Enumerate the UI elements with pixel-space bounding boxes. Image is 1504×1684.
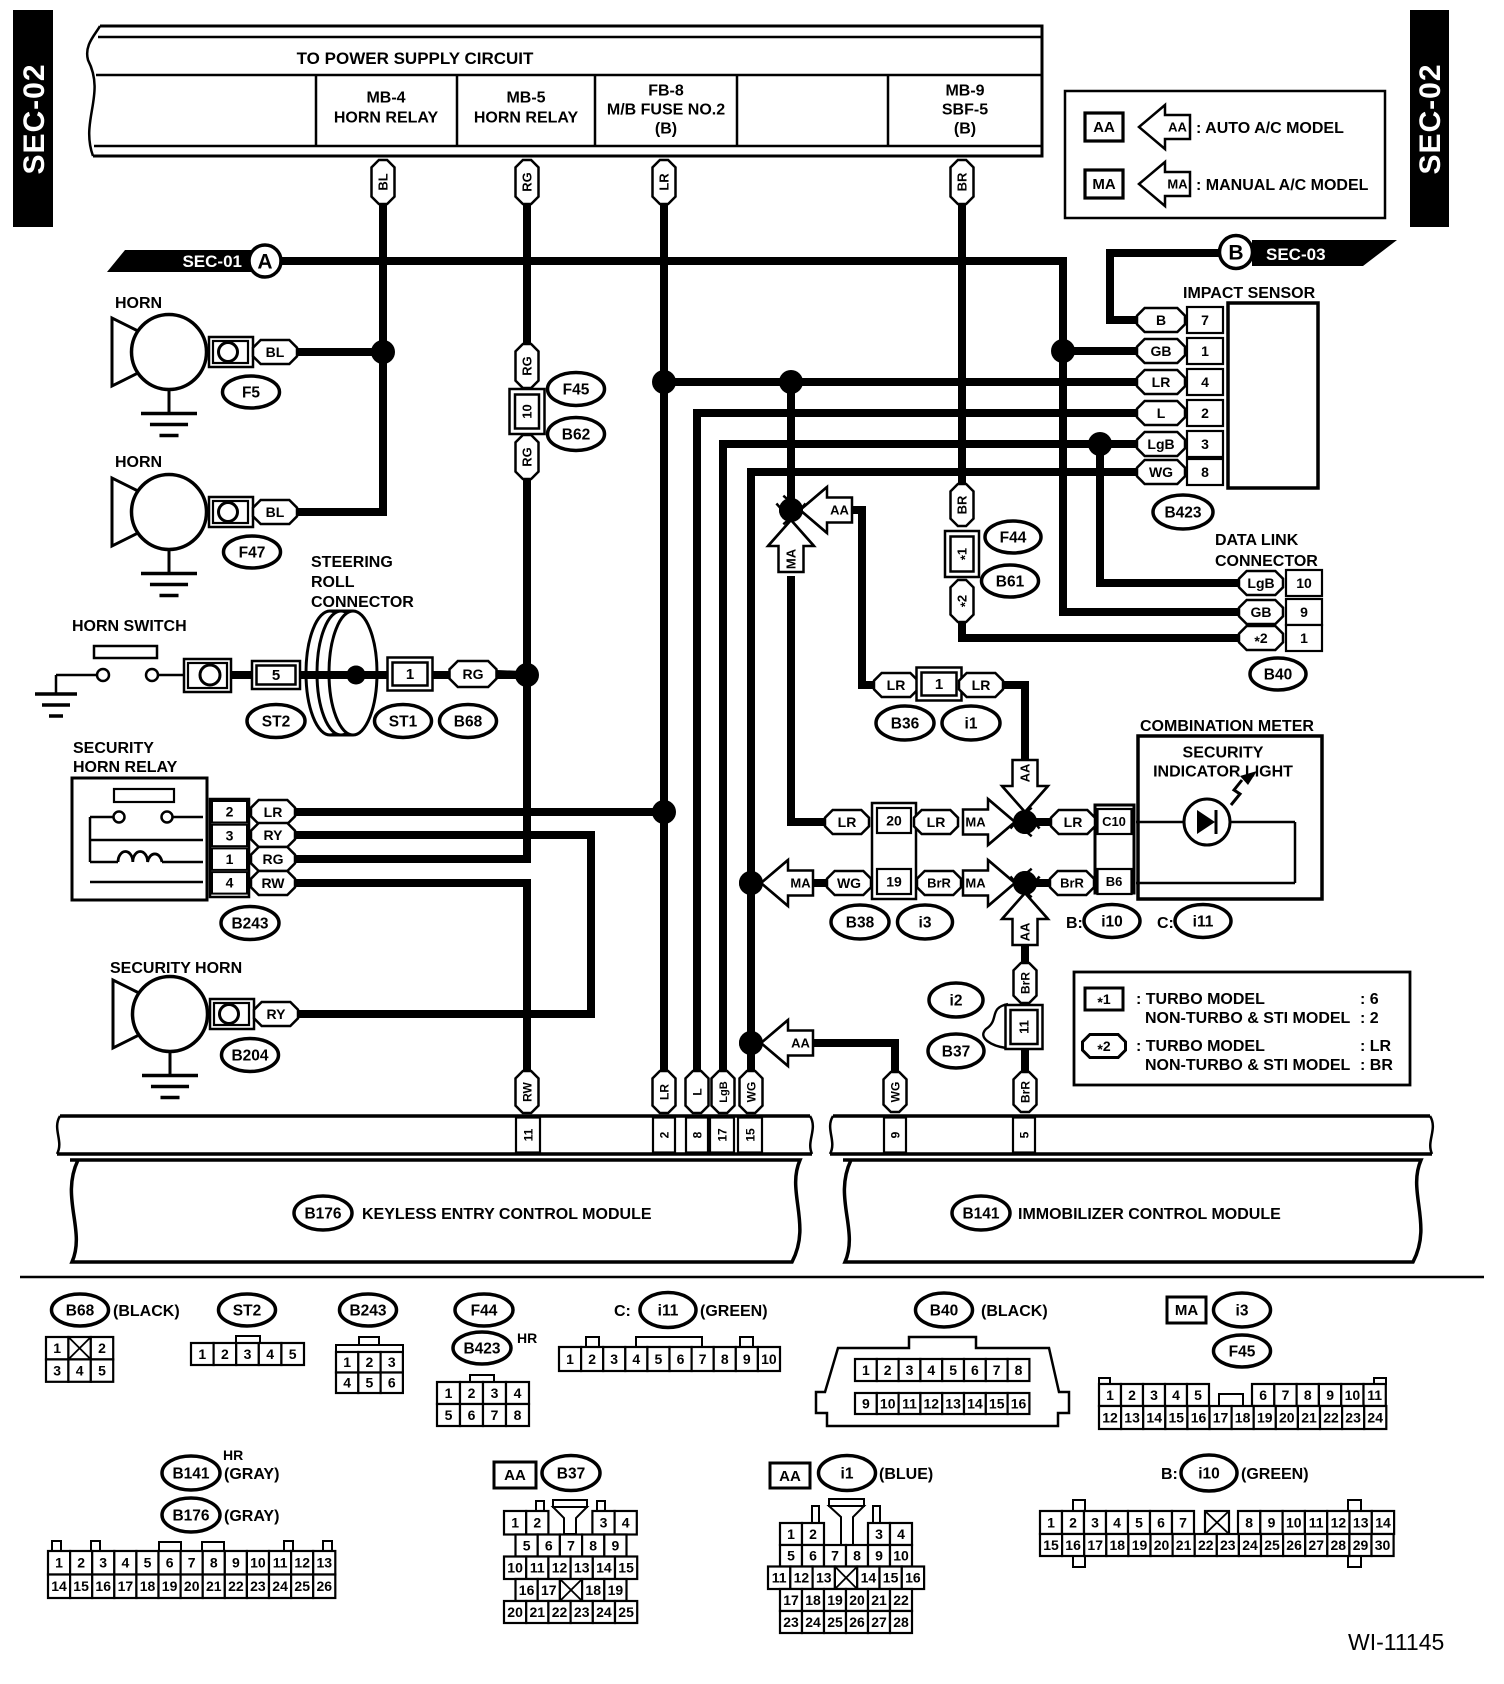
- connector label B37: [928, 1034, 984, 1068]
- svg-text:B37: B37: [942, 1043, 970, 1060]
- pin LR at C10: [1051, 810, 1095, 834]
- svg-text:9: 9: [1268, 1514, 1276, 1530]
- svg-text:2: 2: [809, 1526, 817, 1542]
- view B243 label: [340, 1294, 397, 1326]
- arrow AA down to C10 dot: [1002, 760, 1048, 812]
- svg-text:B141: B141: [962, 1205, 999, 1222]
- svg-text:MA: MA: [965, 876, 986, 891]
- connector label F45: [548, 373, 605, 406]
- svg-text:23: 23: [783, 1614, 799, 1630]
- view B68 label: [52, 1294, 109, 1326]
- connector label i2: [929, 983, 983, 1017]
- connector 20-19 B38-i3: [872, 803, 916, 899]
- svg-text:CONNECTOR: CONNECTOR: [1215, 553, 1318, 570]
- svg-text:i3: i3: [1236, 1302, 1249, 1319]
- svg-text:14: 14: [1375, 1514, 1391, 1530]
- svg-text:B176: B176: [172, 1507, 209, 1524]
- svg-text:8: 8: [1245, 1514, 1253, 1530]
- svg-text:9: 9: [1326, 1387, 1334, 1403]
- svg-text:: TURBO MODEL: : TURBO MODEL: [1136, 991, 1265, 1008]
- svg-text:25: 25: [827, 1614, 843, 1630]
- svg-text:18: 18: [1235, 1409, 1251, 1425]
- svg-text:26: 26: [1286, 1537, 1302, 1553]
- wire LR impact row: [664, 378, 1140, 386]
- wire C10 row: [1025, 818, 1053, 826]
- keyless module pin strip: [60, 1114, 810, 1118]
- svg-text:19: 19: [608, 1582, 624, 1598]
- wire GB impact row: [1063, 347, 1140, 355]
- svg-text:15: 15: [1169, 1409, 1185, 1425]
- svg-text:4: 4: [226, 875, 234, 891]
- svg-text:B6: B6: [1106, 874, 1123, 889]
- svg-text:11: 11: [1309, 1514, 1324, 1530]
- svg-text:MA: MA: [790, 876, 811, 891]
- svg-text:2: 2: [1201, 405, 1209, 421]
- svg-text:15: 15: [989, 1395, 1005, 1411]
- svg-text:23: 23: [574, 1604, 590, 1620]
- svg-text:(B): (B): [954, 121, 976, 138]
- svg-text:1: 1: [406, 666, 414, 683]
- svg-text:WI-11145: WI-11145: [1348, 1629, 1444, 1655]
- svg-text:1: 1: [445, 1385, 453, 1401]
- svg-text:B61: B61: [996, 573, 1025, 590]
- arrow AA at immobilizer WG: [761, 1020, 813, 1066]
- svg-text:1: 1: [1106, 1387, 1114, 1403]
- horn F47: [112, 478, 138, 546]
- ground horn switch: [35, 692, 77, 696]
- svg-text:SEC-02: SEC-02: [1414, 63, 1447, 174]
- svg-text:: 6: : 6: [1360, 991, 1379, 1008]
- svg-text:SEC-02: SEC-02: [18, 63, 51, 174]
- svg-text:F44: F44: [1000, 529, 1027, 546]
- svg-text:18: 18: [585, 1582, 601, 1598]
- SEC-02 tab right: [1410, 10, 1449, 227]
- svg-text:NON-TURBO & STI MODEL: NON-TURBO & STI MODEL: [1145, 1057, 1351, 1074]
- wire horn F5 BL: [297, 348, 383, 356]
- svg-text:3: 3: [1091, 1514, 1099, 1530]
- roll connector dot: [347, 666, 366, 685]
- svg-text:B68: B68: [66, 1302, 95, 1319]
- svg-text:L: L: [690, 1088, 704, 1095]
- svg-text:15: 15: [883, 1570, 899, 1586]
- svg-text:22: 22: [228, 1578, 244, 1594]
- wire BrR to inline connector 11: [1021, 1000, 1029, 1010]
- pin LR from FB-8: [653, 160, 676, 204]
- connector label B36: [876, 706, 934, 740]
- svg-text:16: 16: [95, 1578, 111, 1594]
- svg-text:13: 13: [317, 1555, 333, 1571]
- keyless pin numbers: [516, 1118, 540, 1153]
- svg-text:8: 8: [721, 1351, 729, 1367]
- svg-text:SECURITY HORN: SECURITY HORN: [110, 960, 242, 977]
- SEC-03 banner: [1252, 240, 1397, 266]
- wire relay LR row: [294, 808, 664, 816]
- svg-text:7: 7: [1282, 1387, 1290, 1403]
- svg-text:13: 13: [1124, 1409, 1140, 1425]
- junction dot LR-MA column: [779, 370, 803, 394]
- svg-text:4: 4: [122, 1555, 130, 1571]
- SEC-01 banner: [107, 250, 265, 272]
- wire BL horn branch: [298, 352, 383, 512]
- notes box: [1074, 972, 1410, 1085]
- fuse 10 F45: [510, 389, 545, 434]
- svg-text:14: 14: [51, 1578, 67, 1594]
- svg-text:11: 11: [772, 1570, 787, 1586]
- svg-text:i2: i2: [950, 992, 963, 1009]
- svg-text:INDICATOR LIGHT: INDICATOR LIGHT: [1153, 764, 1293, 781]
- view ST2 label: [219, 1294, 276, 1326]
- svg-text:SEC-03: SEC-03: [1266, 245, 1326, 264]
- legend MA arrow: [1139, 162, 1190, 206]
- keyless module body: [70, 1160, 800, 1262]
- svg-text:GB: GB: [1251, 604, 1272, 620]
- pin BR above fuse F44: [951, 484, 974, 526]
- svg-text:1: 1: [343, 1354, 351, 1370]
- svg-text:2: 2: [657, 1131, 671, 1138]
- pin BrR below inline connector: [1014, 1072, 1037, 1112]
- svg-text:4: 4: [1201, 374, 1209, 390]
- impact pin L: [1137, 401, 1185, 425]
- arrow MA to B6 dot: [963, 860, 1015, 906]
- svg-text:HORN RELAY: HORN RELAY: [474, 110, 579, 127]
- svg-text:11: 11: [521, 1128, 535, 1141]
- steering roll connector symbol: [306, 611, 354, 735]
- svg-text:1: 1: [198, 1346, 206, 1362]
- combination meter box: [1138, 736, 1322, 899]
- svg-text:KEYLESS ENTRY CONTROL MODULE: KEYLESS ENTRY CONTROL MODULE: [362, 1206, 652, 1223]
- wire SEC-01 A bus: [278, 261, 1240, 612]
- svg-text:2: 2: [366, 1354, 374, 1370]
- svg-text:i1: i1: [841, 1465, 854, 1482]
- svg-text:LR: LR: [927, 814, 946, 830]
- junction dot WG AA row: [739, 1031, 763, 1055]
- pin LR right of B36: [959, 673, 1003, 697]
- connector label B40: [1250, 658, 1306, 690]
- connector label F44: [985, 521, 1041, 553]
- svg-text:22: 22: [552, 1604, 568, 1620]
- svg-text:25: 25: [618, 1604, 634, 1620]
- svg-text:16: 16: [1065, 1537, 1081, 1553]
- svg-text:BrR: BrR: [1018, 1081, 1032, 1103]
- svg-text:BrR: BrR: [1060, 876, 1084, 891]
- svg-text:AA: AA: [1018, 763, 1033, 782]
- connector label i1: [942, 706, 1000, 740]
- svg-text:21: 21: [871, 1592, 887, 1608]
- svg-text:3: 3: [1201, 436, 1209, 452]
- svg-text:10: 10: [507, 1560, 523, 1576]
- svg-text:FB-8: FB-8: [648, 83, 684, 100]
- connector label B423: [1153, 495, 1213, 529]
- svg-text:15: 15: [1043, 1537, 1059, 1553]
- SEC-02 tab left: [13, 10, 53, 227]
- svg-text:10: 10: [761, 1351, 777, 1367]
- connector label B141: [952, 1196, 1010, 1230]
- svg-text:6: 6: [809, 1548, 817, 1564]
- svg-text:16: 16: [905, 1570, 921, 1586]
- relay pin RW: [251, 871, 295, 895]
- svg-text:WG: WG: [1149, 464, 1173, 480]
- view i10 connector: [1073, 1500, 1085, 1511]
- meter internal wires: [1136, 821, 1184, 824]
- svg-text:CONNECTOR: CONNECTOR: [311, 594, 414, 611]
- wire LgB branch: [723, 444, 1140, 1076]
- junction dot C10 repaint: [1013, 810, 1037, 834]
- svg-text:(BLACK): (BLACK): [981, 1303, 1048, 1320]
- svg-text:4: 4: [622, 1515, 630, 1531]
- svg-text:8: 8: [853, 1548, 861, 1564]
- security horn B204: [113, 980, 139, 1048]
- svg-text:22: 22: [1198, 1537, 1214, 1553]
- svg-text:: TURBO MODEL: : TURBO MODEL: [1136, 1038, 1265, 1055]
- svg-text:MA: MA: [1092, 176, 1115, 193]
- svg-text:5: 5: [949, 1362, 957, 1378]
- wire horn switch to roll connector: [228, 671, 358, 679]
- svg-text:HORN RELAY: HORN RELAY: [73, 759, 178, 776]
- data link pin star2: [1239, 626, 1283, 650]
- svg-text:B37: B37: [557, 1465, 585, 1482]
- svg-text:RG: RG: [520, 356, 535, 376]
- svg-text:IMMOBILIZER CONTROL MODULE: IMMOBILIZER CONTROL MODULE: [1018, 1206, 1281, 1223]
- svg-text:3: 3: [53, 1363, 61, 1379]
- svg-text:20: 20: [886, 812, 902, 828]
- svg-text:7: 7: [188, 1555, 196, 1571]
- view AA B37 label: [494, 1462, 536, 1488]
- svg-text:7: 7: [699, 1351, 707, 1367]
- svg-text:20: 20: [1279, 1409, 1295, 1425]
- immobilizer pin numbers: [884, 1118, 906, 1153]
- svg-text:10: 10: [893, 1548, 909, 1564]
- svg-text:11: 11: [273, 1555, 288, 1571]
- svg-text:HORN: HORN: [115, 295, 162, 312]
- wire AA-MA junction column: [787, 382, 795, 512]
- svg-text:B: B: [1228, 241, 1243, 264]
- LED security indicator: [1184, 799, 1230, 845]
- power supply circuit box: [93, 26, 1042, 156]
- svg-text:AA: AA: [504, 1467, 526, 1484]
- view B423 connector: [470, 1375, 494, 1382]
- view i3 connector: [1099, 1378, 1110, 1384]
- wire MA arrow tail down: [791, 576, 828, 822]
- wire AA arrow row to immobilizer WG: [812, 1043, 895, 1076]
- svg-text:AA: AA: [830, 503, 849, 518]
- view B68 connector: [46, 1337, 68, 1359]
- svg-text:AA: AA: [1018, 922, 1033, 941]
- svg-text:LR: LR: [838, 814, 857, 830]
- svg-text:9: 9: [232, 1555, 240, 1571]
- junction dot B6 row: [1013, 871, 1037, 895]
- svg-text:6: 6: [677, 1351, 685, 1367]
- svg-text:26: 26: [317, 1578, 333, 1594]
- svg-text:17: 17: [118, 1578, 134, 1594]
- svg-text:30: 30: [1375, 1537, 1391, 1553]
- svg-text:SECURITY: SECURITY: [73, 740, 154, 757]
- svg-text:5: 5: [1194, 1387, 1202, 1403]
- fuse star1 F44: [945, 531, 979, 577]
- svg-text:21: 21: [1301, 1409, 1317, 1425]
- pin BrR above inline connector: [1014, 963, 1037, 1003]
- connector label B176: [294, 1196, 352, 1230]
- view MA i3 label: [1167, 1297, 1206, 1323]
- view AA i1 label: [770, 1463, 810, 1488]
- svg-text:6: 6: [388, 1375, 396, 1391]
- view B423 label: [453, 1332, 511, 1364]
- svg-text:12: 12: [794, 1570, 810, 1586]
- svg-text:16: 16: [1191, 1409, 1207, 1425]
- svg-text:6: 6: [468, 1407, 476, 1423]
- svg-text:18: 18: [1110, 1537, 1126, 1553]
- svg-text:4: 4: [514, 1385, 522, 1401]
- svg-text:7: 7: [1201, 312, 1209, 328]
- svg-text:7: 7: [831, 1548, 839, 1564]
- wire out of roll connector: [356, 671, 390, 679]
- connector label B38: [831, 905, 889, 939]
- svg-text:3: 3: [906, 1362, 914, 1378]
- pin L keyless: [686, 1071, 709, 1113]
- svg-text:3: 3: [610, 1351, 618, 1367]
- svg-text:11: 11: [1367, 1387, 1382, 1403]
- svg-text:(B): (B): [655, 121, 677, 138]
- svg-text:i1: i1: [965, 715, 978, 732]
- svg-text:2: 2: [1128, 1387, 1136, 1403]
- view B243 connector: [359, 1337, 379, 1345]
- svg-text:LR: LR: [1064, 814, 1083, 830]
- svg-text:12: 12: [1331, 1514, 1347, 1530]
- svg-text:: MANUAL A/C MODEL: : MANUAL A/C MODEL: [1196, 177, 1369, 194]
- svg-text:21: 21: [1176, 1537, 1192, 1553]
- svg-text:5: 5: [445, 1407, 453, 1423]
- impact pin WG: [1137, 460, 1185, 484]
- svg-text:3: 3: [491, 1385, 499, 1401]
- svg-text:B:: B:: [1066, 915, 1083, 932]
- view B40 label: [916, 1293, 973, 1327]
- svg-text:28: 28: [1331, 1537, 1347, 1553]
- view i1 connector: [812, 1506, 819, 1523]
- svg-text:2: 2: [98, 1340, 106, 1356]
- svg-text:1: 1: [53, 1340, 61, 1356]
- impact pin LR: [1137, 370, 1185, 394]
- svg-text:1: 1: [511, 1515, 519, 1531]
- svg-text:22: 22: [893, 1592, 909, 1608]
- cell C10: [1098, 809, 1132, 834]
- svg-text:5: 5: [144, 1555, 152, 1571]
- svg-text:LR: LR: [264, 804, 283, 820]
- svg-text:6: 6: [545, 1537, 553, 1553]
- svg-text:4: 4: [76, 1363, 84, 1379]
- svg-text:BL: BL: [266, 504, 285, 520]
- inline connector 11 B37: [983, 1004, 1008, 1048]
- junction dot C10 row: [1013, 810, 1037, 834]
- svg-text:12: 12: [924, 1395, 940, 1411]
- svg-text:: 2: : 2: [1360, 1010, 1379, 1027]
- svg-text:RG: RG: [520, 447, 535, 467]
- svg-text:(BLUE): (BLUE): [879, 1466, 933, 1483]
- svg-text:B38: B38: [846, 914, 875, 931]
- junction dot AA-MA: [779, 498, 803, 522]
- svg-text:25: 25: [294, 1578, 310, 1594]
- svg-text:28: 28: [893, 1614, 909, 1630]
- svg-text:L: L: [1157, 405, 1166, 421]
- svg-text:AA: AA: [779, 1468, 801, 1485]
- security horn relay box: [72, 778, 207, 900]
- wire RY security horn loop: [294, 835, 591, 1014]
- svg-text:2: 2: [1069, 1514, 1077, 1530]
- svg-text:LR: LR: [887, 677, 906, 693]
- pin WG at B38: [827, 871, 871, 895]
- svg-text:B243: B243: [231, 915, 268, 932]
- wire inline 11 to BrR pill: [1021, 1046, 1029, 1076]
- svg-text:HORN SWITCH: HORN SWITCH: [72, 618, 187, 635]
- data link pin GB: [1239, 600, 1283, 624]
- svg-text:19: 19: [827, 1592, 843, 1608]
- svg-text:i10: i10: [1101, 913, 1123, 930]
- junction dot AA-MA repaint: [779, 498, 803, 522]
- svg-text:9: 9: [612, 1537, 620, 1553]
- svg-text:17: 17: [541, 1582, 557, 1598]
- svg-text:MA: MA: [784, 548, 799, 569]
- svg-text:13: 13: [945, 1395, 961, 1411]
- svg-text:BR: BR: [955, 495, 970, 514]
- wire RG vertical from MB-5: [523, 200, 531, 348]
- arrow MA at junction: [768, 520, 814, 572]
- pin LR right of B38: [914, 810, 958, 834]
- svg-text:14: 14: [1146, 1409, 1162, 1425]
- svg-text:MA: MA: [1167, 177, 1188, 192]
- pin RW keyless: [516, 1071, 539, 1113]
- svg-text:i10: i10: [1198, 1465, 1220, 1482]
- svg-text:19: 19: [162, 1578, 178, 1594]
- svg-text:18: 18: [140, 1578, 156, 1594]
- svg-text:MB-5: MB-5: [506, 90, 545, 107]
- wire B36 to AA down arrow: [1003, 685, 1025, 763]
- pin LR left of B38: [825, 810, 869, 834]
- pin RG below fuse: [516, 435, 539, 479]
- svg-text:24: 24: [272, 1578, 288, 1594]
- svg-text:8: 8: [1201, 464, 1209, 480]
- svg-text:BR: BR: [955, 172, 970, 191]
- svg-text:10: 10: [880, 1395, 896, 1411]
- svg-text:B423: B423: [1164, 504, 1201, 521]
- junction dot relay LR row: [652, 800, 676, 824]
- svg-text:NON-TURBO & STI MODEL: NON-TURBO & STI MODEL: [1145, 1010, 1351, 1027]
- wire B6 row: [1025, 879, 1052, 887]
- view i11 connector: [586, 1337, 599, 1347]
- note star1 symbol: [1085, 988, 1123, 1010]
- relay pin RY: [251, 823, 295, 847]
- svg-text:1: 1: [566, 1351, 574, 1367]
- svg-text:2: 2: [533, 1515, 541, 1531]
- pin WG immobilizer: [884, 1072, 907, 1112]
- arrow AA at junction: [800, 487, 852, 533]
- junction dot horn BL: [371, 340, 395, 364]
- svg-text:2: 2: [468, 1385, 476, 1401]
- wire B impact row: [1110, 253, 1219, 320]
- svg-text:DATA LINK: DATA LINK: [1215, 532, 1299, 549]
- svg-text:9: 9: [1300, 604, 1308, 620]
- view B37 connector: [536, 1501, 544, 1511]
- connector label F47: [224, 536, 281, 568]
- view B40 connector: [816, 1337, 1069, 1426]
- svg-text:11: 11: [530, 1560, 545, 1576]
- data link connector cells: [1286, 570, 1322, 596]
- svg-text:B176: B176: [304, 1205, 341, 1222]
- svg-text:17: 17: [715, 1128, 729, 1142]
- svg-text:HORN RELAY: HORN RELAY: [334, 110, 439, 127]
- impact sensor box: [1228, 303, 1318, 488]
- pin BR from MB-9: [951, 160, 974, 204]
- pin star2 below fuse: [951, 580, 974, 622]
- connector label ST2: [247, 705, 305, 738]
- svg-text:19: 19: [1257, 1409, 1273, 1425]
